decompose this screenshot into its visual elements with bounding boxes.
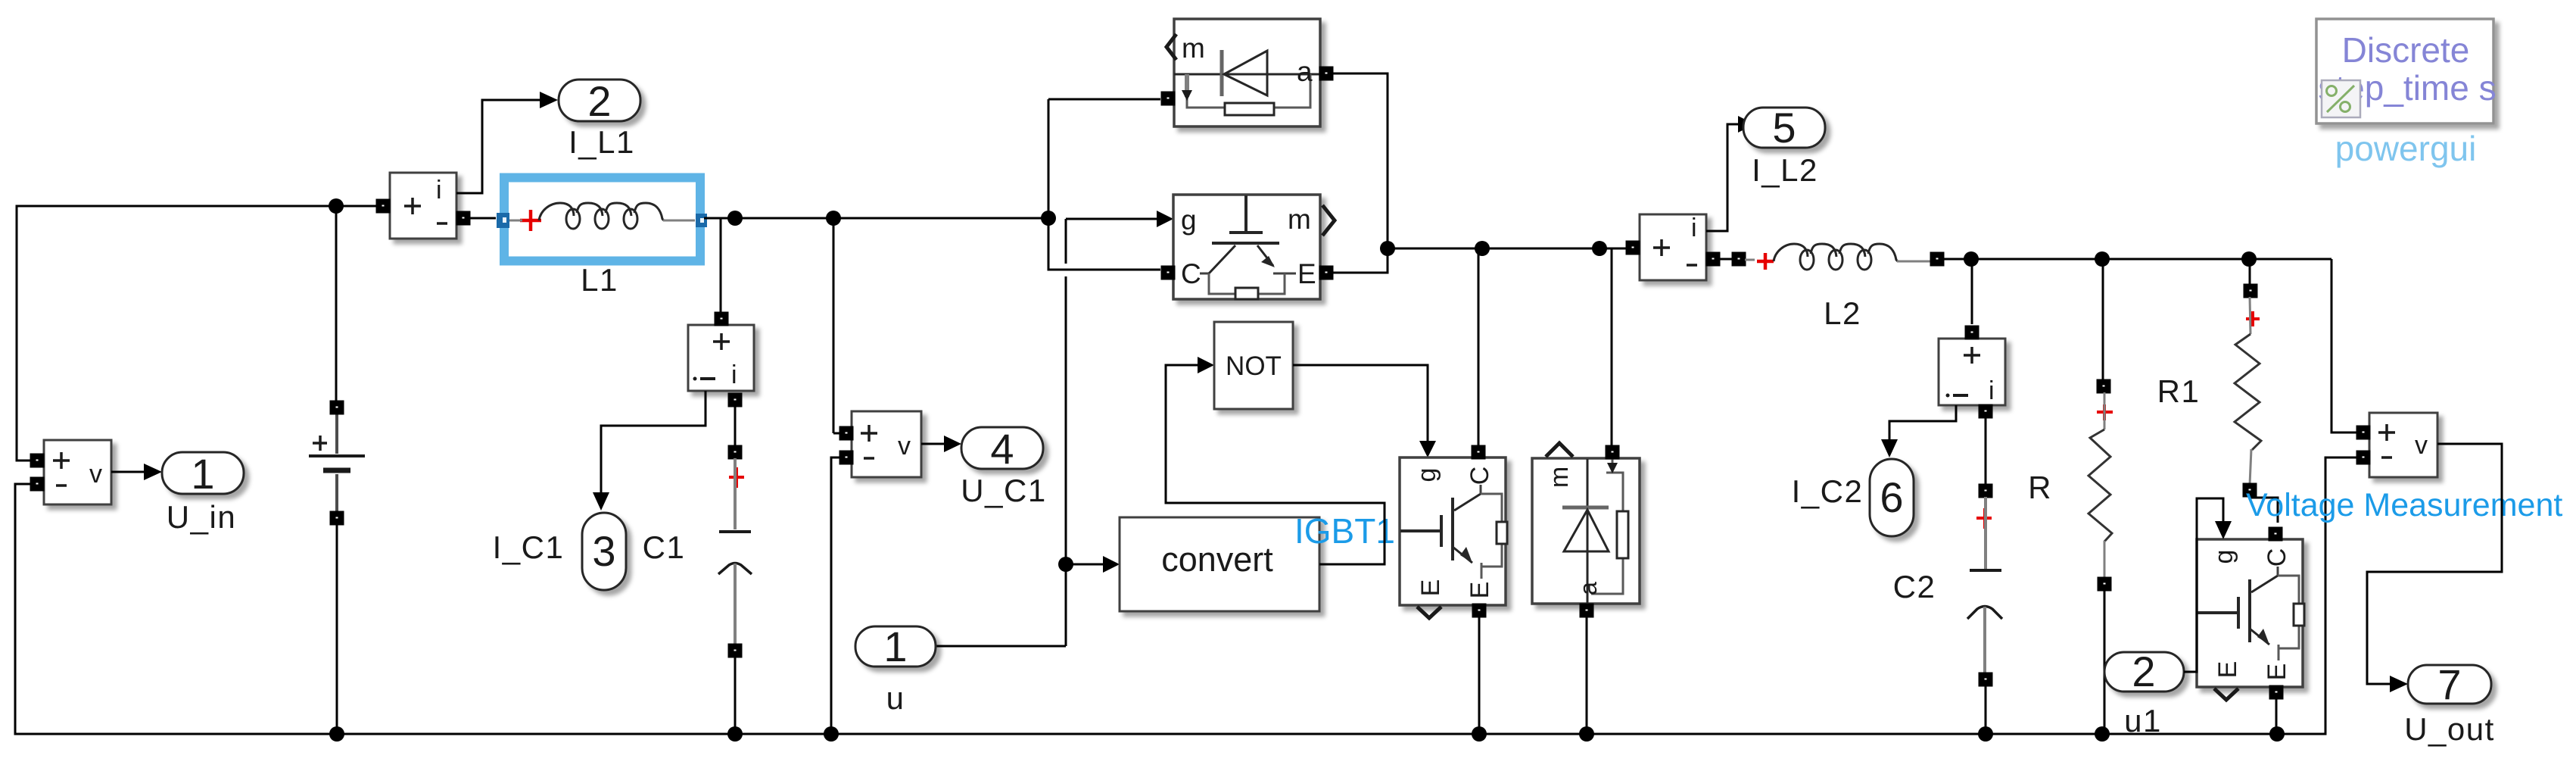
IGBT1 m chevron bottom (1417, 607, 1441, 618)
wire: NOT out to IGBT1 gate (1293, 365, 1428, 441)
node: junction dot C1 on bus (727, 726, 743, 742)
svg-text:1: 1 (883, 623, 907, 670)
wire: node A vertical to diode k and IGBT C (1048, 99, 1160, 270)
svg-text:E: E (1297, 258, 1316, 289)
svg-text:E: E (1466, 582, 1494, 599)
wire: IGBT2 E to bus (2275, 697, 2278, 734)
L1 coil (509, 220, 522, 222)
wire: current meas minus to L1 (469, 217, 496, 220)
block: Current Measurement I_L1 (390, 173, 456, 239)
wire: bottom ground bus from U_in minus around to Voltage Measurement minus (15, 457, 2359, 734)
resistor R (2102, 259, 2104, 380)
svg-text:U_out: U_out (2404, 711, 2495, 747)
block: IGBT2 (vertical) (2197, 528, 2304, 700)
block: IGBT (top) (1173, 195, 1320, 299)
outport oval 1 U_in (162, 452, 244, 494)
svg-text:a: a (1297, 56, 1313, 87)
svg-text:I_C1: I_C1 (493, 529, 565, 565)
svg-text:Voltage Measurement: Voltage Measurement (2246, 487, 2562, 523)
IGBT m output chevron right (1322, 205, 1335, 236)
L1 red plus (520, 210, 541, 231)
svg-text:I_L2: I_L2 (1752, 152, 1818, 188)
svg-text:m: m (1288, 204, 1311, 235)
node: junction dot battery top (329, 198, 344, 214)
block: Voltage Measurement output (2369, 413, 2437, 477)
wire: IGBT1 E to bus (1478, 615, 1481, 734)
block: IGBT1 (vertical) (1400, 446, 1507, 618)
wire: u1 to IGBT2 gate (2184, 498, 2223, 672)
wire: node C into VM plus (2331, 259, 2357, 432)
svg-text:7: 7 (2437, 660, 2461, 708)
diode internal: main line (1174, 73, 1320, 76)
block: Current Measurement I_L2 (1640, 214, 1706, 280)
wire: node C down to I_C2 (1971, 259, 1973, 324)
outport oval 6 vertical (1870, 459, 1914, 536)
outport oval 2 I_L1 (559, 80, 640, 121)
block: Voltage Measurement U_C1 (852, 411, 921, 477)
svg-text:g: g (2210, 550, 2238, 564)
svg-text:R1: R1 (2157, 373, 2201, 409)
svg-text:i: i (436, 176, 442, 205)
capacitor C1 (729, 467, 744, 488)
svg-text:m: m (1182, 33, 1205, 64)
wire: down to IGBT1 C (1478, 248, 1480, 447)
Diode1 internal: cathode bar (1562, 506, 1609, 510)
svg-text:E: E (1416, 579, 1445, 597)
diode m output chevron left (1167, 34, 1176, 60)
block: powergui (2316, 19, 2493, 123)
wire: U_in v to outport 1 (111, 471, 144, 473)
block: Voltage Measurement U_in (44, 440, 111, 504)
IGBT internal: snubber (1209, 273, 1285, 294)
capacitor C2 (1976, 508, 1992, 529)
svg-text:IGBT1: IGBT1 (1294, 511, 1395, 551)
node: junction dot at diode/IGBT branch (1041, 211, 1056, 226)
wire: top-left feed from source node to current measurement plus (17, 206, 377, 461)
wire: I_C2 to C2 cap (1985, 417, 1987, 485)
inport oval 2 u1 (2104, 652, 2184, 692)
wire: battery column bottom to bus (336, 522, 338, 734)
svg-text:3: 3 (592, 527, 615, 575)
svg-text:C: C (1181, 258, 1201, 289)
wire: I_C1 i out to outport 3 (601, 391, 706, 492)
svg-text:5: 5 (1772, 104, 1796, 151)
wire: U_C1 minus to bus (831, 457, 840, 734)
svg-text:g: g (1181, 205, 1197, 236)
svg-text:i: i (1691, 214, 1697, 242)
wire: i output up to outport 2 (456, 100, 540, 193)
block: Diode (top) (1174, 19, 1320, 126)
battery DC Voltage Source symbol (335, 414, 338, 513)
node: junction dot U_C1 minus on bus (824, 726, 839, 742)
node: junction dot IGBT2 E on bus (2269, 726, 2285, 742)
IGBT1 internal: collector diagonal (1454, 494, 1481, 511)
block: NOT (Logical Operator) (1214, 322, 1293, 409)
Diode1 internal: snubber (1606, 458, 1612, 473)
svg-text:v: v (89, 460, 102, 489)
inport oval 1 u (855, 626, 936, 667)
svg-text:E: E (2213, 661, 2242, 679)
svg-text:i: i (731, 361, 737, 389)
node: junction dot R branch (2095, 251, 2110, 267)
wire: IGBT E to node B (1332, 248, 1388, 273)
wire: current meas to C1 cap (734, 402, 737, 447)
node: junction dot U_C1 plus (826, 211, 841, 226)
svg-text:2: 2 (2132, 648, 2155, 695)
node: junction dot at convert input branch (1058, 557, 1073, 572)
node: junction dot Diode1 k branch (1592, 241, 1607, 256)
svg-text:convert: convert (1161, 540, 1273, 579)
IGBT internal: gate (1244, 195, 1248, 232)
svg-text:U_C1: U_C1 (961, 473, 1046, 508)
outport oval 5 I_L2 (1743, 108, 1825, 148)
node: junction dot node B (1380, 241, 1395, 256)
resistor R1 (2249, 259, 2251, 285)
IGBT1 internal: snubber (1481, 494, 1502, 567)
svg-text:g: g (1413, 468, 1441, 482)
block: Current Measurement I_C1 (688, 325, 754, 391)
svg-text:v: v (2415, 431, 2428, 460)
diode internal: cathode bar (1220, 50, 1224, 96)
wire: L2 out to node C (1943, 258, 2331, 261)
wire: down to Diode1 k (1611, 248, 1613, 447)
IGBT internal: emitter path with arrow (1257, 245, 1273, 266)
wire: I_L2 i up to outport 5 (1706, 124, 1738, 231)
Diode1 m chevron top (1546, 443, 1573, 457)
svg-text:m: m (1545, 467, 1574, 488)
outport oval 7 U_out (2408, 665, 2491, 704)
svg-text:u: u (886, 680, 905, 716)
wire: U_C1 plus branch (833, 218, 835, 433)
svg-text:2: 2 (587, 77, 611, 125)
svg-text:1: 1 (191, 450, 214, 498)
svg-text:a: a (1575, 582, 1602, 595)
node: junction dot R on bus (2095, 726, 2110, 742)
wire: R1 bottom jog to IGBT2 C (2250, 496, 2278, 523)
svg-text:R: R (2028, 470, 2052, 505)
wire: convert out loop to NOT in (1166, 365, 1385, 564)
node: junction dot IGBT1 C branch (1475, 241, 1490, 256)
svg-text:L2: L2 (1824, 295, 1861, 331)
wire: battery column top (335, 206, 338, 403)
svg-text:C: C (2263, 548, 2291, 567)
node: junction dot C2 on bus (1978, 726, 1993, 742)
block: convert (Data Type Conversion) (1120, 517, 1319, 611)
svg-text:6: 6 (1880, 473, 1903, 521)
wire: gate feed from u up to IGBT g (1066, 218, 1157, 220)
IGBT1 internal: emitter diagonal with arrow (1453, 547, 1472, 563)
svg-text:L1: L1 (581, 262, 618, 298)
wire: I_C2 i out to outport 6 (1889, 405, 1956, 439)
node: junction dot R1 branch (2241, 251, 2257, 267)
outport oval 3 vertical (582, 513, 626, 590)
svg-text:C2: C2 (1893, 569, 1936, 604)
node: junction dot near C1 top (727, 211, 743, 226)
svg-text:v: v (898, 432, 911, 461)
diode internal: snubber (1187, 74, 1310, 108)
wire: U_C1 v to outport 4 (921, 443, 944, 445)
Diode1 internal: triangle (1564, 510, 1609, 551)
svg-text:powergui: powergui (2335, 129, 2477, 168)
wire: VM v out to outport 7 (2367, 444, 2502, 684)
svg-text:E: E (2263, 664, 2291, 681)
wire: Diode1 a to bus (1586, 615, 1588, 734)
wire: branch down to C1 current measurement (720, 218, 722, 314)
svg-text:U_in: U_in (167, 499, 236, 535)
wire: node B horizontal to I_L2 (1388, 248, 1627, 250)
node: junction dot Diode1 on bus (1579, 726, 1594, 742)
node: junction dot battery bottom on bus (329, 726, 344, 742)
wire: main node A horizontal (704, 217, 1048, 220)
svg-text:C: C (1466, 467, 1494, 486)
svg-text:I_L1: I_L1 (568, 124, 635, 160)
svg-text:Discrete: Discrete (2342, 30, 2470, 70)
Diode1 internal: main line (1587, 459, 1589, 603)
svg-text:NOT: NOT (1226, 351, 1282, 381)
outport oval 4 U_C1 (961, 427, 1043, 469)
svg-text:I_C2: I_C2 (1792, 473, 1864, 509)
block: L1 inductor selected (blue frame) (504, 178, 700, 261)
svg-text:4: 4 (990, 425, 1014, 473)
svg-text:C1: C1 (643, 529, 686, 565)
IGBT1 internal: gate (1400, 529, 1441, 532)
wire: diode a to node B (1332, 73, 1388, 248)
inductor L2 (1733, 253, 1745, 265)
block: Diode1 (vertical) (1532, 458, 1640, 604)
svg-text:i: i (1989, 376, 1995, 405)
node: junction dot L2 out (1964, 251, 1979, 267)
node: junction dot IGBT1 E on bus (1472, 726, 1487, 742)
block: Current Measurement I_C2 (1939, 339, 2005, 405)
diode internal: triangle (1224, 51, 1267, 95)
svg-text:u1: u1 (2124, 703, 2162, 738)
